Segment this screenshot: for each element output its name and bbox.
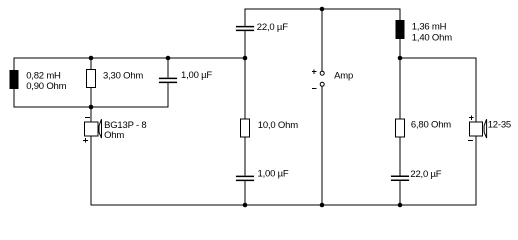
capacitor C1 plates — [159, 78, 177, 82]
junction node: LS1 branch at lower-left rail — [89, 105, 94, 110]
resistor R3 body (6,80 Ohm) — [396, 119, 405, 137]
resistor R1 body — [87, 70, 96, 88]
wire: left loop left side through L1 — [13, 58, 15, 108]
capacitor C4 plates (22,0 µF right) — [391, 176, 409, 180]
wire: right loop right side through LS2 — [475, 58, 477, 206]
amp minus sign — [312, 88, 317, 90]
amp negative terminal — [320, 82, 324, 86]
capacitor C2 plates (22,0 µF top) — [236, 27, 254, 31]
wire: middle branch middle segment (C2 to C3) — [244, 31, 246, 175]
speaker LS1 cone — [99, 119, 102, 138]
speaker LS1 body — [85, 122, 98, 136]
speaker LS2 body — [469, 122, 482, 136]
svg-text:0,90 Ohm: 0,90 Ohm — [26, 81, 66, 92]
wire: resistor R1 branch — [90, 58, 92, 107]
amp plus sign — [312, 69, 317, 74]
svg-text:1,00 µF: 1,00 µF — [258, 169, 289, 180]
capacitor C3 plates (1,00 µF bottom) — [236, 176, 254, 180]
svg-text:12-35: 12-35 — [488, 119, 511, 130]
junction node: right branch at bottom rail — [398, 203, 403, 208]
wire: capacitor C1 branch upper segment — [167, 58, 169, 78]
svg-text:Ohm: Ohm — [104, 130, 124, 141]
svg-text:1,40 Ohm: 1,40 Ohm — [412, 32, 452, 43]
wire: bottom rail (node amp-) — [91, 204, 477, 206]
junction node: amp lead at top rail — [320, 7, 325, 12]
speaker LS2 plus mark — [469, 115, 474, 120]
svg-text:Amp: Amp — [334, 71, 353, 82]
svg-text:10,0 Ohm: 10,0 Ohm — [258, 120, 298, 131]
amp positive terminal — [320, 71, 324, 75]
junction node: right branch at right upper rail — [398, 56, 403, 61]
svg-text:22,0 µF: 22,0 µF — [257, 22, 288, 33]
resistor R2 body (10,0 Ohm) — [241, 119, 250, 137]
wire: middle branch upper segment (to C2) — [244, 9, 246, 26]
wire: lower-left rail (node B) — [14, 106, 169, 108]
wire: right branch upper segment through L2 and R3 — [399, 9, 401, 176]
speaker LS1 plus mark — [83, 138, 88, 143]
junction node: middle branch at bottom rail — [243, 203, 248, 208]
junction node: R1 top — [89, 56, 94, 61]
junction node: middle branch at upper-left rail — [243, 56, 248, 61]
wire: right upper rail (node C) — [400, 57, 477, 59]
wire: upper-left rail (node A) — [14, 57, 246, 59]
svg-text:6,80 Ohm: 6,80 Ohm — [411, 119, 451, 130]
speaker LS2 cone — [484, 119, 487, 138]
wire: middle branch lower segment (C3 to bottom rail) — [244, 181, 246, 205]
wire: speaker LS1 branch — [90, 107, 92, 206]
wire: right branch lower segment (C4 to bottom rail) — [399, 181, 401, 205]
inductor L2 body (1,36 mH) — [396, 20, 405, 39]
svg-text:0,82 mH: 0,82 mH — [26, 70, 61, 81]
junction node: amp lead at bottom rail — [320, 203, 325, 208]
svg-text:3,30 Ohm: 3,30 Ohm — [103, 71, 143, 82]
inductor L1 body — [10, 70, 19, 89]
speaker LS2 minus mark — [468, 139, 473, 141]
speaker LS1 minus mark — [85, 117, 90, 119]
svg-text:1,00 µF: 1,00 µF — [181, 70, 212, 81]
svg-text:22,0 µF: 22,0 µF — [410, 169, 441, 180]
junction node: C1 top — [166, 56, 171, 61]
wire: top rail (node amp+) — [245, 8, 401, 10]
wire: amp positive lead — [321, 9, 323, 72]
wire: amp negative lead — [321, 86, 323, 205]
svg-text:1,36 mH: 1,36 mH — [412, 21, 447, 32]
wire: capacitor C1 branch lower segment — [167, 83, 169, 107]
